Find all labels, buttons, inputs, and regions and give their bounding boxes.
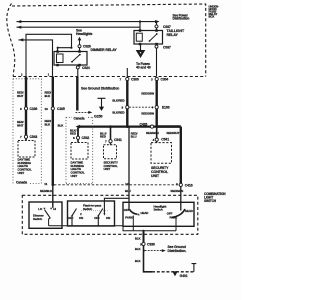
wire B y=26.4 xyxy=(17,26,141,28)
wire A (top feed) y=21.6 xyxy=(17,21,159,23)
Canada option box 2 (dotted) xyxy=(66,117,93,183)
svg-text:BLU: BLU xyxy=(125,189,131,193)
svg-text:RED/GRN: RED/GRN xyxy=(141,92,154,96)
svg-text:C937: C937 xyxy=(163,25,171,29)
svg-text:BLK: BLK xyxy=(45,122,52,126)
DRL control unit 1 (dashed box) xyxy=(18,141,35,158)
wire C y=40 to dimmer switch xyxy=(19,40,53,77)
svg-text:See Ground Distribution: See Ground Distribution xyxy=(81,86,119,90)
headlight switch box xyxy=(123,202,194,226)
flash-to-pass contacts xyxy=(72,209,77,226)
common wire inside combination switch xyxy=(49,226,176,231)
svg-text:C541: C541 xyxy=(161,137,169,141)
wire BLK down to C336 xyxy=(143,231,145,242)
Canada option box 1 (dotted) xyxy=(13,79,41,184)
svg-text:BLK: BLK xyxy=(45,94,52,98)
wire: taillight relay to fuses xyxy=(140,45,142,50)
svg-text:C416: C416 xyxy=(185,183,193,187)
svg-text:DIMMER RELAY: DIMMER RELAY xyxy=(91,48,118,52)
svg-text:Canada: Canada xyxy=(74,116,85,120)
wire jog to dimmer relay coil pin xyxy=(58,48,72,52)
bus wire (black/ground bus) y=126.6 xyxy=(78,125,157,127)
taillight relay switch contact xyxy=(150,34,158,41)
svg-text:11: 11 xyxy=(44,182,47,186)
wire drop to C541 (security unit 1) xyxy=(110,127,112,140)
svg-text:HEAD: HEAD xyxy=(141,211,149,215)
connector C924 xyxy=(76,66,79,69)
taillight relay U2 box xyxy=(134,31,163,45)
svg-text:C426: C426 xyxy=(140,123,148,127)
wire from C924 down to ground note xyxy=(77,65,79,76)
svg-text:Switch: Switch xyxy=(33,217,42,221)
svg-text:RED/GRN: RED/GRN xyxy=(141,111,154,115)
ground arrow G401 xyxy=(172,271,178,276)
svg-text:BOX: BOX xyxy=(209,15,215,19)
wire drop to C541 (security unit 2) xyxy=(156,128,158,138)
wire W2 RED/BLK: x=52.8 xyxy=(52,77,54,186)
svg-text:WHT: WHT xyxy=(17,94,24,98)
wire W1 RED/WHT: x=26 xyxy=(25,77,27,136)
connector C426 on bus xyxy=(150,125,153,128)
UNDER-HOOD FUSE/RELAY BOX label xyxy=(209,4,219,18)
svg-text:C937: C937 xyxy=(163,45,171,49)
wire: headlight switch park drop to common xyxy=(132,226,134,231)
svg-text:BLK: BLK xyxy=(135,237,142,241)
taillight relay coil xyxy=(136,33,142,41)
svg-text:C304: C304 xyxy=(161,78,169,82)
see power distribution annotation xyxy=(173,13,190,20)
wire RED/GRN from C304 down to bus xyxy=(155,81,157,127)
dimmer switch lever xyxy=(45,210,51,219)
svg-text:C543: C543 xyxy=(30,135,38,139)
svg-text:UNIT: UNIT xyxy=(104,167,111,171)
svg-text:PARK: PARK xyxy=(170,216,179,220)
DRL control unit 2 (dashed box) xyxy=(71,143,88,160)
svg-text:C541: C541 xyxy=(114,138,122,142)
wire D y=34.3 bridge xyxy=(26,34,72,108)
svg-text:UNIT: UNIT xyxy=(18,171,25,175)
svg-text:G401: G401 xyxy=(180,274,188,278)
svg-text:BLK: BLK xyxy=(135,259,142,263)
wire taillight relay to C304 xyxy=(156,48,158,76)
wire RED/BLU below bus to headlight switch xyxy=(128,127,130,210)
flash-to-pass branch wire from RED/BLU xyxy=(104,198,129,213)
dashed pointer arrow to G150 xyxy=(76,111,90,113)
svg-text:OFF: OFF xyxy=(68,216,74,220)
connector C937 (bottom) xyxy=(156,44,158,46)
svg-text:HEAD: HEAD xyxy=(185,209,193,213)
svg-text:BLU: BLU xyxy=(131,135,137,139)
svg-text:RED: RED xyxy=(70,132,76,136)
security control unit 2 (dashed box) xyxy=(151,143,172,164)
svg-text:10: 10 xyxy=(45,107,49,111)
wire BLK/RED from C306 down xyxy=(126,81,128,126)
svg-text:RED/GRN: RED/GRN xyxy=(146,131,159,135)
node: wire A / taillight relay pin1 xyxy=(139,20,141,22)
dimmer switch box xyxy=(29,202,62,228)
ground continuation symbol xyxy=(98,98,106,107)
svg-text:UNIT: UNIT xyxy=(151,174,160,178)
svg-text:G150: G150 xyxy=(94,115,102,119)
combination light switch box (dashed) xyxy=(22,195,198,234)
svg-text:C542: C542 xyxy=(82,136,90,140)
svg-text:PARK: PARK xyxy=(125,216,134,220)
see headlights annotation xyxy=(76,29,93,37)
svg-text:C924: C924 xyxy=(82,66,90,70)
svg-text:C105: C105 xyxy=(57,107,65,111)
svg-text:BLK: BLK xyxy=(135,247,142,251)
svg-text:WHT: WHT xyxy=(17,123,24,127)
dashed connector-link line y=184.8 xyxy=(54,184,179,186)
svg-text:BLK: BLK xyxy=(58,123,65,127)
svg-text:C336: C336 xyxy=(147,242,155,246)
svg-text:SWITCH: SWITCH xyxy=(204,199,217,203)
dimmer relay switch contact xyxy=(72,55,80,62)
svg-text:40 and 49: 40 and 49 xyxy=(136,66,151,70)
svg-text:RED/WHT: RED/WHT xyxy=(167,131,180,135)
svg-text:RED/BLK: RED/BLK xyxy=(40,189,53,193)
svg-text:Headlights: Headlights xyxy=(76,32,93,36)
svg-text:Distribution.: Distribution. xyxy=(168,249,187,253)
svg-text:C306: C306 xyxy=(131,78,139,82)
svg-text:BLK/RED: BLK/RED xyxy=(112,99,124,103)
svg-text:BLK/RED: BLK/RED xyxy=(112,110,124,114)
arrow down into C926 xyxy=(79,40,81,45)
svg-text:RELAY: RELAY xyxy=(167,33,179,37)
connector C937 (top) xyxy=(155,25,158,28)
wire labels below link line xyxy=(40,189,183,193)
svg-text:Switch: Switch xyxy=(154,208,163,212)
svg-text:ON: ON xyxy=(79,216,83,220)
svg-text:Distribution: Distribution xyxy=(173,17,190,21)
node: common/C336 junction xyxy=(143,230,145,232)
wire: relay pin drops from wire A xyxy=(139,22,141,30)
svg-text:OFF: OFF xyxy=(94,216,100,220)
see ground distribution (bottom) xyxy=(145,250,163,252)
node bus/RED-GRN wire xyxy=(155,125,158,128)
svg-text:HI: HI xyxy=(53,207,56,211)
wire to ground G401 xyxy=(144,246,153,272)
svg-text:E163: E163 xyxy=(162,106,170,110)
security control unit 1 (dashed box) xyxy=(104,145,117,159)
svg-text:UNIT: UNIT xyxy=(71,174,78,178)
node: wire A / taillight relay pin2 xyxy=(155,20,157,22)
connector C926 xyxy=(78,45,81,48)
svg-text:Canada: Canada xyxy=(16,180,27,184)
dimmer relay coil xyxy=(57,54,64,63)
wire C416 into combination switch xyxy=(180,186,182,211)
svg-text:ON: ON xyxy=(106,216,110,220)
flash-to-pass switch box xyxy=(68,201,115,226)
svg-text:Switch: Switch xyxy=(83,207,92,211)
svg-text:C108: C108 xyxy=(30,107,38,111)
torn page edge (dashed curve) xyxy=(7,4,15,77)
under-hood fuse/relay box boundary (dashed) xyxy=(12,4,206,77)
dimmer relay U1 box xyxy=(54,52,87,66)
ground tie symbol xyxy=(192,264,197,272)
taillight relay pins xyxy=(139,29,142,32)
under-dash boundary bottom (dashed) xyxy=(13,76,206,78)
dimmer relay pins (squares) xyxy=(56,50,59,53)
svg-text:12: 12 xyxy=(125,182,129,186)
node bus/BLK-RED wire xyxy=(126,125,129,128)
svg-text:RED: RED xyxy=(100,135,106,139)
wire drop to C542 xyxy=(77,128,79,136)
